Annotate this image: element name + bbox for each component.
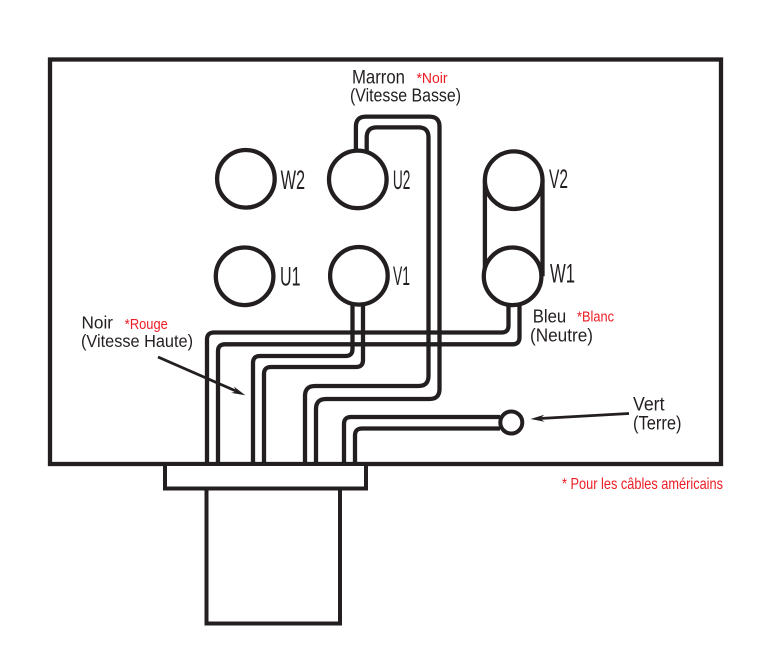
terminal W2 <box>217 150 275 208</box>
svg-text:Bleu: Bleu <box>533 307 567 327</box>
svg-text:*Blanc: *Blanc <box>577 310 614 326</box>
terminal box outline <box>50 60 721 465</box>
svg-text:Noir: Noir <box>82 313 114 333</box>
svg-text:U1: U1 <box>280 262 301 292</box>
link bar V2-W1 <box>483 180 487 276</box>
wire noir outer (V1 to gland) <box>253 290 353 466</box>
wire noir inner (V1 to gland) <box>264 290 363 466</box>
ground lug circle <box>500 412 522 434</box>
cable <box>207 489 341 624</box>
wire bleu outer (W1 to gland) <box>207 290 509 466</box>
terminal V1 <box>330 247 388 305</box>
svg-text:(Vitesse Basse): (Vitesse Basse) <box>350 85 461 106</box>
svg-text:Vert: Vert <box>633 395 665 416</box>
wire bleu inner (W1 to gland) <box>218 290 520 466</box>
terminal U2 <box>329 151 387 209</box>
svg-text:W2: W2 <box>281 165 306 195</box>
terminal U1 <box>216 247 274 305</box>
arrow vert <box>531 414 630 422</box>
svg-text:(Neutre): (Neutre) <box>530 326 593 346</box>
arrow noir <box>158 357 245 395</box>
wire vert upper (ground lug to gland) <box>344 417 500 466</box>
terminal V2 <box>485 151 543 209</box>
wire vert lower (ground lug to gland) <box>355 429 500 466</box>
svg-text:W1: W1 <box>550 259 575 289</box>
svg-text:V2: V2 <box>549 164 568 194</box>
svg-text:U2: U2 <box>393 165 411 195</box>
wire marron outer (U2 over top, down right side, to gland) <box>316 117 440 466</box>
svg-text:(Vitesse Haute): (Vitesse Haute) <box>81 331 193 351</box>
svg-text:V1: V1 <box>393 261 410 291</box>
svg-text:(Terre): (Terre) <box>633 414 682 435</box>
terminal W1 <box>484 247 542 305</box>
svg-text:* Pour les câbles américains: * Pour les câbles américains <box>562 476 723 493</box>
cable gland flange <box>165 464 366 489</box>
wire marron inner (U2 over top, down right side, to gland) <box>305 127 429 465</box>
